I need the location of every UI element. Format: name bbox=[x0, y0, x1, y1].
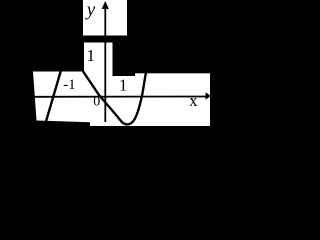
svg-text:1: 1 bbox=[87, 46, 96, 65]
svg-text:y: y bbox=[85, 0, 96, 20]
svg-text:0: 0 bbox=[93, 95, 100, 110]
svg-text:x: x bbox=[189, 91, 198, 110]
svg-text:1: 1 bbox=[119, 76, 127, 95]
svg-text:-1: -1 bbox=[63, 77, 75, 93]
